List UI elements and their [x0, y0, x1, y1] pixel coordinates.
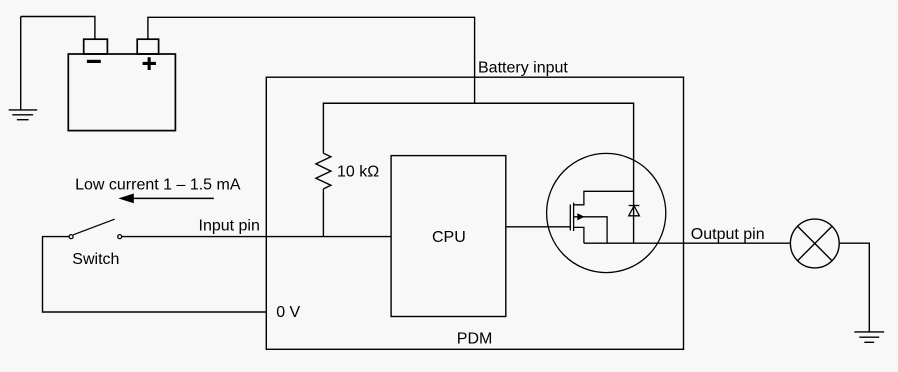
PDM enclosure box — [266, 77, 683, 349]
svg-text:Low current 1 – 1.5 mA: Low current 1 – 1.5 mA — [75, 177, 241, 194]
wire (lamp to ground) — [839, 243, 869, 332]
body diode D1 — [629, 206, 640, 216]
wire (battery positive terminal to PDM battery input pin) — [148, 17, 475, 103]
ground (lamp return) — [854, 332, 884, 342]
current direction arrow — [118, 194, 213, 204]
wire (internal supply rail: resistor top to MOSFET drain) — [323, 103, 633, 243]
transistor Q1 substrate arrow — [577, 213, 584, 220]
wire (source / output pin to lamp) — [584, 242, 791, 244]
CPU U1 box — [391, 156, 506, 317]
svg-text:10 kΩ: 10 kΩ — [337, 164, 379, 181]
battery BT1 — [68, 39, 175, 130]
wire (switch to 0 V return) — [43, 237, 267, 312]
svg-text:CPU: CPU — [432, 229, 466, 246]
svg-text:Switch: Switch — [72, 251, 119, 268]
svg-text:0 V: 0 V — [276, 304, 300, 321]
resistor R1 — [316, 153, 331, 189]
svg-text:Output pin: Output pin — [691, 226, 765, 243]
wire (battery negative terminal to ground) — [21, 17, 95, 40]
switch S1 — [69, 219, 122, 238]
transistor Q1 (N-channel MOSFET) — [547, 153, 666, 272]
lamp LP1 — [790, 219, 839, 268]
wire (resistor bottom to input pin net) — [322, 189, 324, 237]
ground (battery negative return) — [9, 17, 38, 120]
svg-text:Battery input: Battery input — [478, 59, 568, 76]
wire (input pin net: switch to CPU) — [122, 236, 391, 238]
wire (CPU output to gate of Q1) — [506, 226, 571, 228]
svg-text:Input pin: Input pin — [199, 218, 260, 235]
battery negative polarity mark — [87, 60, 101, 63]
svg-text:PDM: PDM — [457, 330, 493, 347]
battery positive polarity mark — [143, 57, 156, 70]
